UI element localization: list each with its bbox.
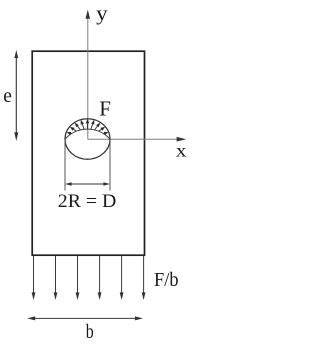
bottom load arrow 4 <box>98 256 102 300</box>
y-axis <box>86 10 91 140</box>
svg-text:2R = D: 2R = D <box>58 192 117 212</box>
bottom load arrow 1 <box>32 256 36 300</box>
svg-text:b: b <box>86 321 94 343</box>
e dimension arrow <box>14 50 18 141</box>
bottom load arrow 6 <box>142 256 146 300</box>
load arrow 5 <box>87 123 89 129</box>
bottom load arrow 5 <box>120 256 124 300</box>
load arrow 1 <box>70 133 73 135</box>
svg-text:F: F <box>99 96 111 120</box>
load arrow 4 <box>82 124 84 129</box>
load arrow 8 <box>99 129 102 131</box>
x-axis <box>88 137 186 142</box>
bottom load arrow 3 <box>76 256 80 300</box>
2R witness line right <box>109 140 111 191</box>
load arrow 3 <box>78 126 81 130</box>
svg-text:F/b: F/b <box>154 269 179 291</box>
b dimension line <box>27 316 143 320</box>
plate outline <box>32 51 144 255</box>
2R dimension line <box>65 182 110 185</box>
svg-text:y: y <box>96 4 108 25</box>
hole circle <box>65 119 110 159</box>
load arrow 6 <box>91 124 93 129</box>
load arrow 9 <box>102 133 105 135</box>
load arrow 7 <box>95 126 98 130</box>
bottom load arrow 2 <box>54 256 58 300</box>
load envelope arc <box>65 129 110 139</box>
svg-text:x: x <box>176 141 187 161</box>
2R witness line left <box>64 140 66 191</box>
load arrow 2 <box>74 129 77 131</box>
svg-text:e: e <box>3 86 12 107</box>
